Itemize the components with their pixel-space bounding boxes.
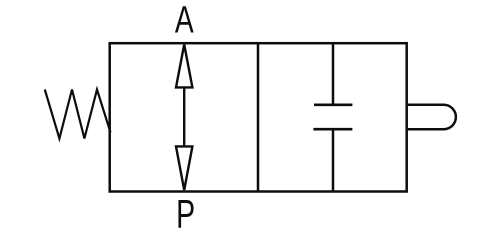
blocked port upper wire <box>332 43 335 105</box>
flow path arrow shaft <box>183 87 185 146</box>
svg-text:A: A <box>175 0 195 42</box>
svg-text:P: P <box>176 193 195 234</box>
blocked port upper T bar <box>314 104 352 107</box>
valve body box <box>110 43 407 191</box>
position divider wire <box>257 43 260 191</box>
plunger actuator <box>408 105 456 129</box>
flow path arrow upper arrowhead (port A side) <box>176 45 192 88</box>
flow path arrow lower arrowhead (port P side) <box>176 146 192 190</box>
spring actuator <box>45 90 111 139</box>
blocked port lower T bar <box>313 128 352 131</box>
blocked port lower wire <box>332 129 335 191</box>
